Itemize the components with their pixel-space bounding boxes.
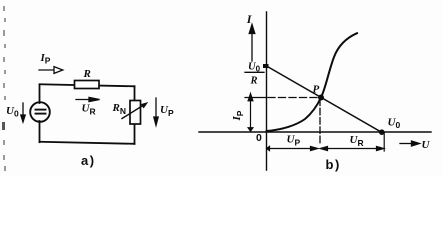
arrow IP current (39, 67, 63, 74)
svg-text:0: 0 (256, 132, 262, 144)
arrow UP voltage (154, 98, 158, 125)
svg-text:UP: UP (160, 104, 174, 118)
svg-text:IP: IP (231, 110, 245, 121)
dashed line IP level (268, 97, 318, 99)
wire right lower (134, 124, 136, 144)
wire top (40, 84, 135, 86)
wire right upper (134, 86, 136, 100)
extension line IP (245, 97, 267, 99)
wire left lower (39, 121, 41, 142)
axis arrow I (249, 25, 255, 62)
arrow U0 voltage (21, 103, 25, 122)
resistor R (75, 81, 100, 89)
arrow UR voltage (76, 97, 100, 101)
point P (318, 95, 324, 101)
load line (267, 66, 383, 133)
dimension IP (248, 94, 253, 132)
svg-text:b): b) (326, 157, 341, 172)
svg-text:P: P (313, 84, 320, 96)
axis U (199, 131, 431, 133)
dashed line UP level (319, 99, 321, 144)
svg-text:RN: RN (112, 102, 126, 116)
svg-text:U0: U0 (388, 117, 401, 131)
svg-text:UR: UR (82, 103, 96, 117)
characteristic curve (267, 33, 358, 131)
svg-text:R: R (250, 76, 258, 87)
fraction bar U0/R (245, 71, 264, 73)
scan noise left edge (2, 6, 6, 171)
svg-text:U: U (422, 139, 431, 151)
svg-text:UR: UR (350, 134, 364, 148)
extension line U0 (383, 133, 385, 151)
svg-text:UP: UP (287, 134, 301, 148)
wire left upper (39, 85, 41, 104)
svg-text:R: R (83, 68, 91, 80)
svg-text:IP: IP (40, 52, 51, 66)
resistor RN (nonlinear) (122, 101, 148, 125)
dimension UR (320, 146, 384, 150)
svg-text:U0: U0 (248, 62, 261, 74)
wire bottom (40, 142, 135, 144)
source U0 (30, 102, 50, 122)
tick U0/R (263, 64, 269, 68)
axis I (266, 12, 268, 170)
svg-text:a): a) (81, 153, 96, 168)
axis arrow U (400, 141, 420, 146)
dot U0 on axis (379, 129, 385, 135)
svg-text:U0: U0 (6, 105, 19, 119)
dimension UP (267, 146, 318, 150)
